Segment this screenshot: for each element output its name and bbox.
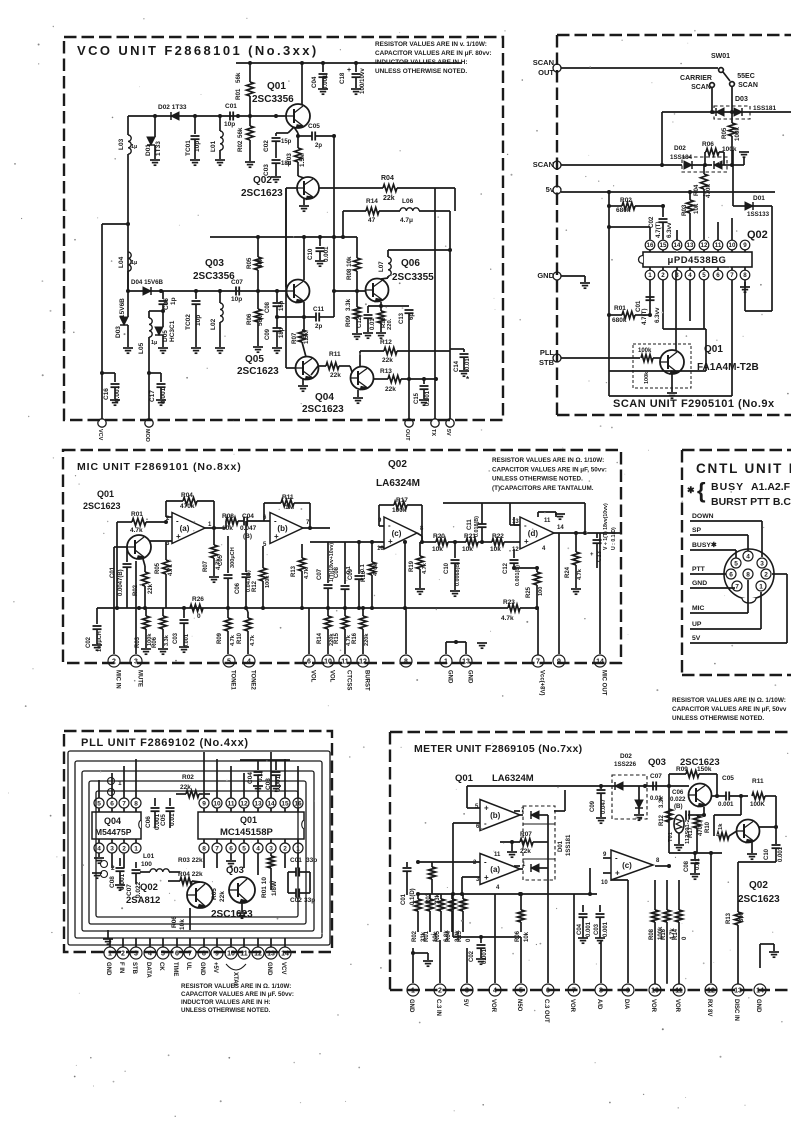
svg-text:D01: D01 — [145, 144, 152, 156]
svg-text:C04: C04 — [577, 923, 583, 935]
svg-text:R16: R16 — [661, 928, 667, 940]
svg-text:3: 3 — [134, 951, 138, 958]
svg-text:UNLESS OTHERWISE NOTED.: UNLESS OTHERWISE NOTED. — [672, 715, 764, 722]
svg-text:14: 14 — [756, 988, 764, 995]
svg-text:3: 3 — [269, 845, 273, 852]
svg-text:GND: GND — [408, 999, 414, 1013]
svg-text:R06: R06 — [171, 916, 178, 928]
svg-text:C15: C15 — [414, 392, 420, 404]
svg-text:C02: C02 — [469, 950, 475, 962]
svg-text:(c): (c) — [392, 529, 402, 538]
svg-text:✱: ✱ — [687, 485, 695, 495]
svg-text:0.001: 0.001 — [119, 873, 126, 890]
svg-text:2: 2 — [122, 845, 126, 852]
svg-text:INDUCTOR VALUES ARE IN H:: INDUCTOR VALUES ARE IN H: — [181, 999, 271, 1006]
svg-text:VOR: VOR — [650, 999, 656, 1013]
svg-text:1.5k: 1.5k — [303, 331, 310, 344]
svg-text:OUT: OUT — [538, 68, 554, 77]
svg-text:C06: C06 — [235, 582, 241, 594]
svg-text:C06: C06 — [672, 789, 684, 796]
svg-text:L06: L06 — [402, 198, 414, 205]
svg-text:33p: 33p — [306, 857, 317, 864]
svg-text:R01: R01 — [614, 305, 626, 312]
svg-text:2SC3355: 2SC3355 — [392, 272, 434, 283]
svg-text:R13: R13 — [380, 368, 392, 375]
svg-text:R15: R15 — [457, 930, 463, 942]
svg-text:HC3C1: HC3C1 — [169, 320, 176, 342]
svg-text:(a): (a) — [180, 524, 190, 533]
svg-text:100k: 100k — [265, 575, 271, 588]
svg-text:C09: C09 — [590, 800, 596, 812]
svg-text:55EC: 55EC — [737, 73, 755, 80]
svg-text:D03: D03 — [735, 96, 748, 103]
svg-text:Q01: Q01 — [267, 81, 286, 92]
svg-text:BUSY: BUSY — [711, 481, 744, 493]
svg-text:TONE1: TONE1 — [230, 670, 236, 691]
svg-text:R03: R03 — [286, 153, 293, 165]
svg-text:-: - — [524, 521, 527, 530]
svg-text:1: 1 — [648, 272, 652, 279]
svg-text:R06: R06 — [152, 636, 158, 648]
svg-text:R08 10k: R08 10k — [346, 256, 353, 280]
svg-text:11: 11 — [240, 951, 248, 958]
svg-text:22k: 22k — [180, 784, 191, 791]
svg-text:MC145158P: MC145158P — [220, 827, 273, 838]
svg-text:8: 8 — [743, 272, 747, 279]
svg-text:9: 9 — [557, 659, 561, 666]
svg-text:0.01: 0.01 — [695, 858, 701, 870]
svg-text:C10: C10 — [307, 248, 314, 260]
svg-text:8: 8 — [134, 800, 138, 807]
svg-text:0.001: 0.001 — [322, 74, 329, 90]
svg-text:R15: R15 — [334, 632, 340, 644]
svg-text:0.001: 0.001 — [425, 390, 431, 406]
svg-text:13: 13 — [687, 242, 694, 249]
svg-text:(T)CAPACITORS ARE TANTALUM.: (T)CAPACITORS ARE TANTALUM. — [492, 485, 594, 492]
svg-text:10: 10 — [227, 951, 235, 958]
svg-text:UL: UL — [185, 962, 191, 970]
svg-text:5: 5 — [519, 988, 523, 995]
svg-text:1μ: 1μ — [131, 144, 137, 150]
svg-text:5: 5 — [734, 561, 738, 568]
svg-text:Vcc(+8V): Vcc(+8V) — [539, 670, 545, 696]
svg-text:C01: C01 — [401, 893, 407, 905]
svg-text:Q01: Q01 — [704, 344, 723, 355]
svg-text:D05: D05 — [162, 330, 169, 342]
svg-text:8: 8 — [746, 572, 750, 579]
svg-text:9: 9 — [215, 951, 219, 958]
svg-text:6p: 6p — [409, 313, 415, 320]
svg-text:15V6B: 15V6B — [119, 298, 126, 318]
svg-text:56k: 56k — [237, 127, 244, 138]
svg-text:0.047: 0.047 — [601, 798, 607, 814]
svg-text:R04 22k: R04 22k — [178, 871, 203, 878]
svg-text:Q06: Q06 — [401, 258, 420, 269]
svg-text:4.7k: 4.7k — [250, 634, 256, 646]
svg-text:R16: R16 — [352, 632, 358, 644]
svg-text:C08: C08 — [684, 860, 690, 872]
svg-text:3: 3 — [110, 845, 114, 852]
svg-text:15p: 15p — [279, 300, 285, 311]
svg-text:SCAN: SCAN — [691, 84, 711, 91]
svg-text:C04: C04 — [311, 76, 318, 88]
svg-text:D03: D03 — [115, 326, 122, 338]
svg-text:100: 100 — [141, 861, 152, 868]
svg-text:R04: R04 — [693, 184, 700, 196]
svg-text:Q02: Q02 — [253, 175, 272, 186]
svg-text:7: 7 — [572, 988, 576, 995]
svg-text:L01: L01 — [143, 853, 155, 860]
svg-text:R05: R05 — [211, 888, 218, 900]
svg-text:MIC IN: MIC IN — [115, 670, 121, 689]
svg-text:15p: 15p — [281, 139, 292, 145]
svg-text:Q02: Q02 — [388, 459, 407, 470]
svg-text:R12: R12 — [252, 580, 258, 592]
svg-text:2SC1623: 2SC1623 — [211, 909, 253, 920]
svg-text:6.3vv: 6.3vv — [666, 222, 673, 238]
svg-text:GND: GND — [467, 670, 473, 684]
svg-text:MIC OUT: MIC OUT — [601, 670, 607, 696]
svg-text:6: 6 — [307, 659, 311, 666]
svg-text:4: 4 — [97, 845, 101, 852]
svg-text:22k: 22k — [385, 386, 396, 393]
svg-text:1: 1 — [118, 780, 122, 787]
svg-text:100k: 100k — [644, 371, 650, 384]
svg-text:R17: R17 — [396, 497, 408, 504]
svg-text:(b): (b) — [490, 811, 501, 820]
svg-text:6: 6 — [175, 951, 179, 958]
svg-text:8: 8 — [202, 845, 206, 852]
svg-text:R07: R07 — [291, 332, 298, 344]
svg-text:LA6324M: LA6324M — [376, 478, 420, 489]
svg-text:C09: C09 — [265, 328, 271, 340]
svg-text:10: 10 — [651, 988, 659, 995]
svg-text:4.7k: 4.7k — [304, 567, 310, 579]
svg-text:3.3k: 3.3k — [659, 796, 665, 808]
svg-text:+: + — [484, 803, 489, 812]
svg-text:L01: L01 — [210, 140, 217, 152]
svg-text:15: 15 — [281, 800, 289, 807]
svg-text:VCV: VCV — [280, 962, 286, 974]
svg-text:4.7k: 4.7k — [168, 564, 174, 576]
svg-text:14: 14 — [267, 800, 275, 807]
svg-text:0.001: 0.001 — [482, 948, 488, 964]
svg-text:C01: C01 — [290, 857, 302, 864]
svg-text:13: 13 — [734, 988, 742, 995]
svg-text:470k: 470k — [373, 563, 379, 576]
svg-text:4: 4 — [247, 659, 251, 666]
svg-text:Q01: Q01 — [97, 489, 114, 499]
svg-text:CNTL UNIT F28: CNTL UNIT F28 — [696, 461, 791, 476]
svg-text:R02: R02 — [182, 774, 194, 781]
svg-text:DISC IN: DISC IN — [733, 999, 739, 1021]
svg-text:A1.A2.F: A1.A2.F — [751, 481, 791, 493]
svg-text:C05: C05 — [308, 123, 320, 130]
svg-text:CAPACITOR VALUES ARE IN μF. 80: CAPACITOR VALUES ARE IN μF. 80vv: — [375, 50, 492, 57]
svg-text:VCO UNIT F2868101 (No.3xx): VCO UNIT F2868101 (No.3xx) — [77, 43, 319, 58]
svg-text:100/10vv: 100/10vv — [359, 68, 366, 94]
svg-text:Q02: Q02 — [140, 882, 158, 893]
svg-text:100: 100 — [538, 587, 544, 596]
svg-text:C07: C07 — [650, 773, 662, 780]
svg-text:2: 2 — [438, 988, 442, 995]
svg-text:2p: 2p — [315, 323, 322, 330]
svg-text:Q04: Q04 — [104, 816, 121, 826]
svg-text:0.001: 0.001 — [114, 385, 121, 402]
svg-text:0.01: 0.01 — [169, 813, 176, 826]
svg-text:5: 5 — [161, 951, 165, 958]
svg-text:SCAN: SCAN — [738, 82, 758, 89]
svg-text:R07: R07 — [203, 560, 209, 572]
svg-text:C06: C06 — [145, 816, 152, 828]
svg-text:M54475P: M54475P — [95, 827, 132, 837]
svg-text:R14: R14 — [366, 198, 378, 205]
svg-text:(B): (B) — [243, 533, 252, 540]
svg-text:BUSY✱: BUSY✱ — [692, 541, 717, 549]
svg-text:R20: R20 — [433, 533, 445, 540]
svg-text:0.001: 0.001 — [184, 634, 190, 648]
svg-text:RESISTOR VALUES ARE IN Ω. 1/10: RESISTOR VALUES ARE IN Ω. 1/10W: — [181, 983, 291, 990]
svg-text:33p: 33p — [304, 897, 315, 904]
svg-text:10k: 10k — [462, 546, 473, 553]
svg-text:2SC1623: 2SC1623 — [302, 404, 344, 415]
svg-text:390: 390 — [739, 911, 745, 922]
svg-text:10: 10 — [213, 800, 221, 807]
svg-text:2SC1623: 2SC1623 — [83, 501, 121, 511]
svg-text:12: 12 — [707, 988, 715, 995]
svg-text:5V: 5V — [445, 429, 451, 436]
svg-text:SP: SP — [692, 527, 702, 534]
svg-text:2: 2 — [112, 659, 116, 666]
svg-text:R04: R04 — [381, 175, 394, 182]
svg-text:GND: GND — [199, 962, 205, 976]
svg-text:VOL: VOL — [310, 670, 316, 683]
svg-text:R11: R11 — [752, 778, 764, 785]
svg-text:5: 5 — [702, 272, 706, 279]
svg-text:2SC3356: 2SC3356 — [193, 271, 235, 282]
svg-text:1SS181: 1SS181 — [753, 105, 777, 112]
svg-text:6: 6 — [229, 845, 233, 852]
svg-text:SW01: SW01 — [711, 53, 730, 60]
svg-text:R04: R04 — [446, 930, 452, 942]
svg-text:10p: 10p — [195, 315, 202, 326]
svg-text:MOD: MOD — [144, 429, 150, 442]
svg-text:12: 12 — [512, 547, 519, 553]
svg-text:C16: C16 — [103, 388, 110, 400]
svg-text:1: 1 — [296, 845, 300, 852]
svg-text:R10: R10 — [237, 632, 243, 644]
svg-text:GND: GND — [105, 962, 111, 976]
svg-text:10: 10 — [324, 659, 332, 666]
svg-text:UNLESS OTHERWISE NOTED.: UNLESS OTHERWISE NOTED. — [375, 68, 467, 75]
svg-text:VOL: VOL — [329, 670, 335, 683]
svg-text:18p: 18p — [279, 327, 285, 338]
svg-text:Q01: Q01 — [240, 815, 257, 825]
svg-text:100k: 100k — [734, 127, 741, 141]
svg-text:D02: D02 — [674, 145, 686, 152]
svg-text:0.001: 0.001 — [603, 921, 609, 937]
svg-text:11: 11 — [494, 852, 501, 858]
svg-text:C02: C02 — [263, 140, 270, 152]
svg-text:VOR: VOR — [569, 999, 575, 1013]
svg-text:D02: D02 — [620, 753, 632, 760]
svg-text:2: 2 — [764, 572, 768, 579]
svg-text:10p: 10p — [231, 296, 242, 303]
svg-text:0.001: 0.001 — [718, 801, 734, 808]
svg-text:D04 15V6B: D04 15V6B — [131, 279, 164, 286]
svg-text:3.3k: 3.3k — [164, 634, 170, 646]
svg-text:100μCH: 100μCH — [97, 631, 103, 652]
svg-text:R02: R02 — [620, 197, 632, 204]
svg-text:9: 9 — [626, 988, 630, 995]
svg-text:3.3k: 3.3k — [345, 298, 352, 311]
svg-text:C18: C18 — [339, 72, 346, 84]
svg-text:F IN: F IN — [118, 962, 124, 973]
svg-text:14: 14 — [674, 242, 681, 249]
svg-text:7: 7 — [122, 800, 126, 807]
svg-text:Q03: Q03 — [226, 865, 244, 876]
svg-text:D02 1T33: D02 1T33 — [158, 104, 187, 111]
svg-text:GND: GND — [692, 580, 707, 587]
svg-text:10k: 10k — [524, 931, 530, 942]
svg-text:TIME: TIME — [172, 962, 178, 976]
svg-text:DOWN: DOWN — [692, 513, 714, 520]
svg-text:U : 0.1(D): U : 0.1(D) — [611, 527, 617, 550]
svg-text:12: 12 — [254, 951, 262, 958]
svg-text:R05: R05 — [721, 127, 728, 139]
svg-text:L04: L04 — [118, 256, 125, 268]
svg-text:5v: 5v — [546, 185, 555, 194]
svg-text:+: + — [347, 67, 351, 74]
svg-text:+5V: +5V — [212, 962, 218, 973]
svg-text:Q02: Q02 — [749, 880, 768, 891]
svg-text:BURST PTT B.C.D: BURST PTT B.C.D — [711, 496, 791, 508]
svg-text:STB: STB — [131, 962, 137, 975]
svg-text:2: 2 — [283, 845, 287, 852]
svg-text:UNLESS OTHERWISE NOTED.: UNLESS OTHERWISE NOTED. — [492, 476, 583, 483]
svg-text:(d): (d) — [528, 529, 539, 538]
svg-text:10p: 10p — [194, 141, 201, 152]
svg-text:13: 13 — [462, 659, 470, 666]
svg-text:12: 12 — [701, 242, 708, 249]
svg-text:(B): (B) — [674, 803, 683, 810]
svg-text:+: + — [615, 869, 620, 878]
svg-text:CAPACITOR VALUES ARE IN μF. 50: CAPACITOR VALUES ARE IN μF. 50vv: — [181, 991, 294, 998]
svg-text:FA1A4M-T2B: FA1A4M-T2B — [697, 362, 759, 373]
svg-text:R03 22k: R03 22k — [178, 857, 203, 864]
svg-text:7: 7 — [730, 272, 734, 279]
svg-text:0.0047(B): 0.0047(B) — [118, 569, 124, 596]
svg-text:R13: R13 — [726, 912, 732, 924]
svg-text:4.7(T): 4.7(T) — [641, 308, 648, 325]
svg-text:100K: 100K — [750, 801, 765, 808]
svg-text:R11: R11 — [282, 494, 294, 501]
svg-text:15: 15 — [660, 242, 667, 249]
svg-text:R24: R24 — [565, 566, 571, 578]
svg-text:6: 6 — [546, 988, 550, 995]
svg-text:4: 4 — [256, 845, 260, 852]
svg-text:Q04: Q04 — [315, 392, 334, 403]
svg-text:10k: 10k — [179, 919, 186, 930]
svg-text:1k: 1k — [718, 823, 724, 830]
svg-text:METER UNIT F2869105 (No.7xx): METER UNIT F2869105 (No.7xx) — [414, 743, 583, 755]
svg-text:MUTE: MUTE — [137, 670, 143, 687]
svg-text:D01: D01 — [753, 195, 765, 202]
svg-text:LA6324M: LA6324M — [492, 773, 534, 784]
svg-text:11: 11 — [341, 659, 349, 666]
svg-text:CTCSS: CTCSS — [346, 670, 352, 690]
svg-text:R16: R16 — [361, 570, 367, 582]
svg-text:14: 14 — [596, 659, 604, 666]
svg-text:1μ: 1μ — [131, 260, 137, 266]
svg-text:C09: C09 — [348, 568, 354, 580]
svg-text:0.001: 0.001 — [778, 846, 784, 862]
svg-text:C14: C14 — [454, 360, 460, 372]
svg-text:6: 6 — [729, 572, 733, 579]
svg-text:R08: R08 — [649, 928, 655, 940]
svg-text:-: - — [388, 521, 391, 530]
svg-text:4.7(T): 4.7(T) — [655, 221, 662, 238]
svg-text:4.7k: 4.7k — [577, 568, 583, 580]
svg-text:56k: 56k — [257, 257, 264, 268]
svg-text:R06: R06 — [702, 141, 714, 148]
svg-text:R05: R05 — [155, 562, 161, 574]
svg-text:9: 9 — [743, 242, 747, 249]
svg-text:C10: C10 — [764, 848, 770, 860]
svg-text:R01: R01 — [235, 88, 242, 100]
svg-text:0.01: 0.01 — [370, 318, 376, 330]
svg-text:1SS181: 1SS181 — [566, 834, 572, 856]
svg-text:CAPACITOR VALUES ARE IN μF, 50: CAPACITOR VALUES ARE IN μF, 50vv — [672, 706, 787, 713]
svg-text:C05: C05 — [160, 814, 167, 826]
svg-text:L02: L02 — [210, 318, 217, 330]
svg-text:16: 16 — [294, 800, 302, 807]
svg-text:9: 9 — [202, 800, 206, 807]
svg-text:C03: C03 — [594, 923, 600, 935]
svg-text:VOR: VOR — [674, 999, 680, 1013]
svg-text:SCAN: SCAN — [533, 58, 554, 67]
svg-text:0.1: 0.1 — [257, 773, 264, 782]
svg-text:8: 8 — [202, 951, 206, 958]
svg-text:C05: C05 — [722, 775, 734, 782]
svg-text:150k: 150k — [697, 766, 712, 773]
svg-text:7: 7 — [188, 951, 192, 958]
svg-text:22k: 22k — [148, 583, 154, 594]
svg-text:0.001: 0.001 — [586, 921, 592, 937]
svg-text:0.01: 0.01 — [465, 358, 471, 370]
svg-text:GND: GND — [266, 962, 272, 976]
svg-text:TC02: TC02 — [185, 314, 192, 330]
svg-text:10: 10 — [729, 242, 736, 249]
svg-text:BURST: BURST — [364, 670, 370, 691]
svg-text:0.001: 0.001 — [323, 246, 330, 262]
svg-text:D/A: D/A — [623, 999, 629, 1010]
svg-text:1μ: 1μ — [151, 340, 157, 346]
svg-text:TC01: TC01 — [185, 140, 192, 156]
svg-text:R06: R06 — [515, 930, 521, 942]
svg-text:5V: 5V — [462, 999, 468, 1006]
svg-text:22k: 22k — [219, 891, 226, 902]
svg-text:7: 7 — [536, 659, 540, 666]
svg-text:12: 12 — [359, 659, 367, 666]
svg-text:CARRIER: CARRIER — [680, 75, 712, 82]
svg-text:C08: C08 — [334, 566, 340, 578]
svg-text:STB: STB — [539, 358, 555, 367]
svg-text:4.7k: 4.7k — [130, 527, 143, 534]
svg-text:1T33: 1T33 — [155, 141, 162, 156]
svg-text:C03: C03 — [173, 632, 179, 644]
svg-text:UNLESS OTHERWISE NOTED.: UNLESS OTHERWISE NOTED. — [181, 1007, 271, 1014]
